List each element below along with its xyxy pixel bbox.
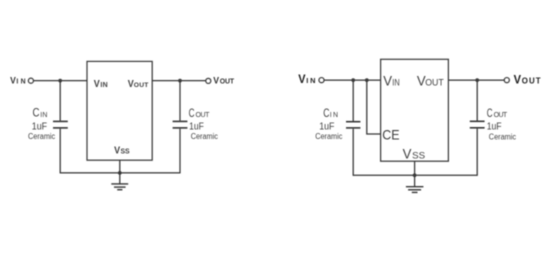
svg-text:OUT: OUT — [196, 112, 211, 119]
wire CIN bottom plate to ground bus (left) — [59, 129, 61, 174]
svg-text:V: V — [10, 76, 16, 86]
terminal VIN (right circuit) — [319, 78, 324, 83]
svg-text:OUT: OUT — [494, 112, 508, 119]
wire U1 VSS down to ground (left) — [119, 160, 121, 184]
junction input/CIN (right) — [351, 78, 355, 82]
svg-text:V: V — [298, 74, 306, 86]
svg-text:IN: IN — [100, 82, 107, 89]
capacitor C_OUT (left) — [173, 121, 188, 128]
svg-text:IN: IN — [306, 76, 315, 85]
svg-text:1uF: 1uF — [487, 121, 502, 133]
svg-text:IN: IN — [40, 112, 47, 119]
pin label VSS of U1 (left) — [114, 146, 130, 157]
ground bus (left) — [60, 172, 180, 174]
terminal VOUT (right circuit) — [504, 78, 509, 83]
wire U2 VOUT to output terminal (right) — [448, 79, 504, 81]
value label COUT (left) — [189, 106, 218, 141]
wire junction down to COUT top plate (right) — [476, 80, 478, 121]
regulator U2 body (right) — [381, 59, 449, 161]
node VOUT (right circuit) — [514, 75, 541, 87]
wire U2 VSS down to ground (right) — [414, 161, 416, 187]
wire COUT bottom plate to ground bus (left) — [179, 129, 181, 174]
node VIN (left circuit) — [10, 76, 26, 86]
junction output/COUT (left) — [178, 79, 182, 83]
value label CIN (right) — [315, 106, 342, 141]
wire VIN terminal to U1 pin VIN (left) — [34, 80, 88, 82]
value label COUT (right) — [487, 106, 516, 142]
svg-text:V: V — [213, 76, 219, 86]
junction output/COUT (right) — [475, 78, 479, 82]
svg-text:C: C — [323, 106, 329, 120]
pin label VOUT of U1 (left) — [128, 79, 150, 90]
svg-text:OUT: OUT — [425, 78, 444, 88]
pin label CE of U2 (right) — [382, 127, 399, 143]
pin label VIN of U2 (right) — [383, 73, 399, 89]
svg-text:1uF: 1uF — [319, 121, 334, 133]
svg-text:OUT: OUT — [522, 77, 541, 86]
pin label VOUT of U2 (right) — [417, 73, 444, 89]
ground bus (right) — [353, 174, 477, 176]
svg-text:IN: IN — [392, 78, 399, 88]
regulator U1 body (left) — [87, 61, 152, 160]
svg-text:OUT: OUT — [134, 82, 150, 89]
junction VSS/ground bus (left) — [118, 171, 122, 175]
capacitor C_IN (right) — [346, 122, 360, 128]
wire junction down to CIN top plate (left) — [59, 81, 61, 121]
svg-text:Ceramic: Ceramic — [315, 132, 342, 141]
junction VSS/ground bus (right) — [413, 173, 417, 177]
node VOUT (left circuit) — [213, 76, 235, 86]
pin label VSS of U2 (right) — [403, 145, 426, 161]
capacitor C_IN (left) — [53, 121, 68, 128]
svg-text:V: V — [403, 145, 412, 161]
terminal VOUT (left circuit) — [206, 78, 211, 83]
wire CIN bottom plate to ground bus (right) — [352, 129, 354, 176]
svg-text:SS: SS — [121, 149, 130, 156]
terminal VIN (left circuit) — [28, 78, 33, 83]
svg-text:Ceramic: Ceramic — [28, 132, 55, 141]
junction input/CIN (left) — [58, 79, 62, 83]
svg-text:Ceramic: Ceramic — [191, 132, 218, 141]
svg-text:C: C — [189, 106, 195, 120]
junction input/CE (right) — [365, 78, 369, 82]
svg-text:IN: IN — [16, 79, 25, 86]
wire CE junction to U2 pin CE (right) — [367, 80, 381, 134]
value label CIN (left) — [28, 106, 55, 141]
svg-text:1uF: 1uF — [189, 121, 204, 133]
svg-text:1uF: 1uF — [32, 121, 47, 133]
svg-text:C: C — [487, 106, 493, 120]
ground symbol (right) — [406, 187, 424, 193]
svg-text:IN: IN — [330, 112, 338, 119]
wire COUT bottom plate to ground bus (right) — [476, 129, 478, 176]
svg-text:V: V — [383, 73, 392, 89]
svg-text:CE: CE — [382, 127, 399, 143]
ground symbol (left) — [111, 184, 128, 190]
svg-text:V: V — [94, 79, 100, 90]
svg-text:V: V — [514, 75, 522, 87]
pin label VIN of U1 (left) — [94, 79, 108, 90]
capacitor C_OUT (right) — [470, 121, 485, 128]
wire junction down to CIN top plate (right) — [352, 80, 354, 121]
svg-text:C: C — [33, 106, 40, 120]
wire VIN terminal to U2 pin VIN (right) — [324, 79, 381, 81]
node VIN (right circuit) — [298, 74, 315, 86]
svg-text:SS: SS — [412, 149, 425, 160]
svg-text:OUT: OUT — [220, 79, 235, 86]
svg-text:Ceramic: Ceramic — [489, 133, 516, 142]
wire U1 VOUT to output terminal (left) — [152, 80, 206, 82]
wire junction down to COUT top plate (left) — [179, 81, 181, 121]
